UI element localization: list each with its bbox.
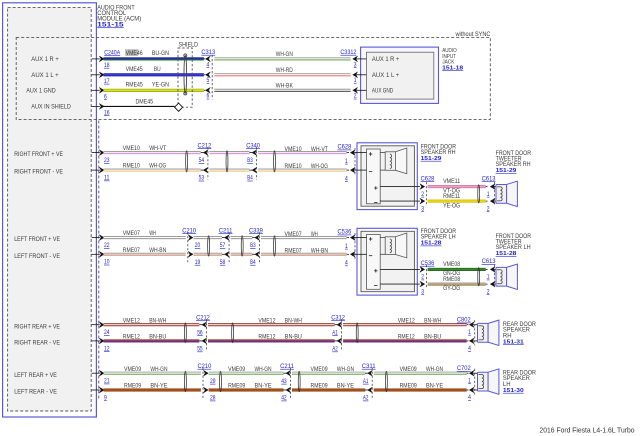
svg-text:WH-BN: WH-BN <box>311 248 328 255</box>
svg-text:RME12: RME12 <box>258 334 275 341</box>
svg-text:5: 5 <box>207 77 210 84</box>
svg-text:3: 3 <box>354 61 357 68</box>
svg-text:WH-GN: WH-GN <box>150 366 167 373</box>
svg-text:WH-BN: WH-BN <box>149 247 166 254</box>
connector C628 (speaker in) <box>338 144 367 183</box>
svg-text:1: 1 <box>345 243 348 250</box>
svg-text:BN-YE: BN-YE <box>337 383 354 390</box>
AUDIO FRONT CONTROL MODULE (ACM) label <box>97 6 141 29</box>
ACM pin 6 <box>92 87 108 100</box>
front door tweeter speaker RH label <box>496 151 532 174</box>
svg-text:B3: B3 <box>250 242 256 249</box>
svg-text:WH: WH <box>149 230 156 237</box>
svg-text:1: 1 <box>468 377 471 384</box>
svg-text:C536: C536 <box>338 229 352 236</box>
svg-text:C313: C313 <box>201 49 215 56</box>
svg-text:VME10: VME10 <box>123 145 140 152</box>
twisted pair loop <box>356 323 358 343</box>
svg-text:RIGHT REAR + VE: RIGHT REAR + VE <box>14 324 60 330</box>
svg-text:YE-OG: YE-OG <box>443 202 460 209</box>
svg-text:20: 20 <box>195 242 201 249</box>
svg-text:VME46: VME46 <box>126 50 143 57</box>
svg-text:C340: C340 <box>246 142 260 149</box>
svg-text:DME45: DME45 <box>136 98 154 105</box>
svg-text:RME12: RME12 <box>398 334 415 341</box>
svg-text:BN-WH: BN-WH <box>149 317 166 324</box>
twisted pair loop <box>298 371 300 391</box>
svg-text:RIGHT REAR - VE: RIGHT REAR - VE <box>14 341 60 347</box>
wire VME46 BU-GN <box>104 57 204 60</box>
shield symbol <box>184 55 187 93</box>
svg-text:17: 17 <box>104 78 110 85</box>
svg-text:BN-WH: BN-WH <box>285 317 302 324</box>
svg-text:1: 1 <box>354 77 357 84</box>
svg-text:53: 53 <box>199 175 205 182</box>
wire DME45 (drain) <box>104 105 175 107</box>
ACM inner dashed box (gray) <box>8 8 92 411</box>
svg-text:A1: A1 <box>363 378 369 385</box>
svg-text:C536: C536 <box>421 260 435 267</box>
svg-text:4: 4 <box>468 345 471 352</box>
connector C312 <box>331 314 345 352</box>
connector C212 <box>198 142 212 181</box>
front door speaker LH label <box>421 229 457 247</box>
svg-text:VME08: VME08 <box>443 261 460 268</box>
connector C536 (speaker in) <box>338 229 367 267</box>
svg-text:BN-YE: BN-YE <box>150 383 167 390</box>
wire VME10 segment 2 <box>209 151 249 154</box>
svg-text:1: 1 <box>487 274 490 281</box>
svg-text:9: 9 <box>104 394 107 401</box>
svg-text:LEFT REAR - VE: LEFT REAR - VE <box>14 390 57 396</box>
wire RME11 YE-OG <box>428 200 486 203</box>
svg-text:without SYNC: without SYNC <box>455 31 491 38</box>
svg-text:C339: C339 <box>249 227 263 234</box>
svg-text:RME10: RME10 <box>123 163 140 170</box>
ACM pin 22 <box>92 235 110 249</box>
svg-text:VME10: VME10 <box>285 146 302 153</box>
wire VME07 WH segment 1 <box>104 236 186 239</box>
wire RME07 segment 2 <box>194 253 223 256</box>
svg-text:AUX GND: AUX GND <box>372 88 394 94</box>
twisted pair loop <box>232 323 234 343</box>
ACM pin 18 <box>92 56 110 69</box>
svg-text:AUX IN SHIELD: AUX IN SHIELD <box>31 105 71 111</box>
svg-text:GY-OG: GY-OG <box>443 285 460 292</box>
svg-text:C210: C210 <box>198 363 212 370</box>
wire VME09 segment 2 <box>209 372 284 375</box>
svg-text:BN-YE: BN-YE <box>426 383 443 390</box>
wire VME09 segment 4 <box>374 372 467 375</box>
ACM pin 17 <box>92 72 110 85</box>
twisted pair loop <box>226 151 228 172</box>
svg-text:4: 4 <box>468 394 471 401</box>
svg-text:VME09: VME09 <box>400 366 417 373</box>
twisted pair loop <box>184 323 186 343</box>
svg-text:3: 3 <box>421 205 424 212</box>
svg-text:BU-GN: BU-GN <box>152 50 169 57</box>
svg-text:WH-OG: WH-OG <box>149 163 166 170</box>
wire VME07 segment 4 <box>261 236 347 239</box>
wire VME10 segment 3 <box>258 151 347 154</box>
ACM pin 10 <box>92 251 110 265</box>
twisted pair loop <box>274 236 276 256</box>
rear door speaker LH label <box>503 371 537 394</box>
connector C340 <box>246 142 260 181</box>
svg-text:RIGHT FRONT - VE: RIGHT FRONT - VE <box>14 170 63 176</box>
rear door speaker RH label <box>503 322 537 345</box>
svg-text:VME09: VME09 <box>228 366 245 373</box>
svg-text:C312: C312 <box>331 314 345 321</box>
svg-text:C240A: C240A <box>104 49 121 56</box>
svg-text:58: 58 <box>220 259 226 266</box>
svg-text:WH: WH <box>311 231 318 238</box>
svg-text:AUX 1 L +: AUX 1 L + <box>31 73 59 79</box>
svg-text:22: 22 <box>104 242 110 249</box>
wire RME07 WH-BN segment 1 <box>104 253 186 256</box>
svg-text:AUX 1 GND: AUX 1 GND <box>26 88 56 94</box>
wire VME09 WH-GN segment 1 <box>104 372 201 375</box>
svg-text:6: 6 <box>207 93 210 100</box>
ACM pin 9 <box>92 387 108 401</box>
front door tweeter speaker LH label <box>496 234 532 257</box>
svg-text:2016 Ford Fiesta L4-1.6L Turbo: 2016 Ford Fiesta L4-1.6L Turbo <box>540 426 635 435</box>
audio input jack label <box>442 48 464 71</box>
svg-text:A1: A1 <box>332 329 338 336</box>
shield drain diamond <box>175 103 183 111</box>
svg-text:4: 4 <box>207 61 210 68</box>
wire VME12 BN-WH segment 1 <box>104 323 200 326</box>
wire VME09 segment 3 <box>292 372 365 375</box>
svg-text:11: 11 <box>104 175 110 182</box>
svg-text:BN-BU: BN-BU <box>149 334 166 341</box>
svg-text:RME12: RME12 <box>123 334 140 341</box>
wire VME11 VT-OG <box>428 185 486 188</box>
rear door speaker RH icon <box>478 323 489 342</box>
svg-text:19: 19 <box>195 259 201 266</box>
svg-text:A2: A2 <box>363 395 369 402</box>
svg-text:151-29: 151-29 <box>496 168 518 174</box>
svg-text:C802: C802 <box>457 317 471 324</box>
svg-text:WH-GN: WH-GN <box>337 366 354 373</box>
svg-text:LEFT FRONT - VE: LEFT FRONT - VE <box>14 254 60 260</box>
svg-text:WH-GN: WH-GN <box>276 51 293 58</box>
connector C211 <box>280 363 294 402</box>
svg-text:RME09: RME09 <box>311 383 328 390</box>
svg-text:C212: C212 <box>198 142 212 149</box>
svg-text:55: 55 <box>197 346 203 353</box>
svg-text:AUX 1 R +: AUX 1 R + <box>31 57 59 63</box>
svg-text:12: 12 <box>104 345 110 352</box>
connector C3312 <box>340 49 366 100</box>
svg-text:VME12: VME12 <box>258 317 275 324</box>
svg-text:1: 1 <box>345 158 348 165</box>
ACM pin 11 <box>92 167 110 181</box>
twisted pair loop <box>385 371 387 391</box>
svg-text:WH-GN: WH-GN <box>426 366 443 373</box>
svg-text:VME12: VME12 <box>398 317 415 324</box>
connector C802 <box>457 317 478 353</box>
svg-text:RME07: RME07 <box>285 248 302 255</box>
twisted pair loop <box>186 151 188 172</box>
twisted pair loop <box>208 236 210 256</box>
svg-text:6: 6 <box>104 93 107 100</box>
svg-text:BN-BU: BN-BU <box>424 334 441 341</box>
svg-text:BU: BU <box>154 66 161 73</box>
svg-text:A2: A2 <box>332 346 338 353</box>
svg-text:C628: C628 <box>338 144 352 151</box>
wire RME45 YE-GN <box>104 89 204 92</box>
connector C311 <box>362 363 376 402</box>
front door speaker LH box <box>357 228 417 295</box>
connector C313 <box>201 49 215 100</box>
twisted pair loop <box>241 236 243 256</box>
wire VME08 GN-OG <box>428 268 486 271</box>
svg-text:2: 2 <box>354 93 357 100</box>
svg-text:151-29: 151-29 <box>421 156 443 162</box>
ACM pin 21 <box>92 370 110 384</box>
wire RME12 BN-BU segment 1 <box>104 339 200 342</box>
wire RME07 segment 4 <box>261 253 347 256</box>
svg-text:BN-YE: BN-YE <box>255 383 272 390</box>
svg-text:4: 4 <box>345 260 348 267</box>
svg-text:WH-RD: WH-RD <box>276 67 293 74</box>
svg-text:BN-WH: BN-WH <box>424 317 441 324</box>
svg-text:28: 28 <box>210 395 216 402</box>
svg-text:2: 2 <box>487 288 490 295</box>
svg-text:1: 1 <box>487 191 490 198</box>
svg-text:RME07: RME07 <box>123 247 140 254</box>
wire VME07 segment 3 <box>231 236 253 239</box>
svg-text:29: 29 <box>210 378 216 385</box>
svg-text:VME11: VME11 <box>443 178 460 185</box>
svg-text:C628: C628 <box>421 175 435 182</box>
svg-text:SHIELD: SHIELD <box>179 41 199 48</box>
svg-text:VME07: VME07 <box>285 231 302 238</box>
connector C339 <box>249 227 263 266</box>
svg-text:24: 24 <box>104 329 110 336</box>
wire RME08 GY-OG <box>428 283 486 286</box>
svg-text:BN-BU: BN-BU <box>285 334 302 341</box>
wire VME10 WH-VT segment 1 <box>104 151 201 154</box>
svg-text:LEFT REAR + VE: LEFT REAR + VE <box>14 373 57 379</box>
svg-text:RME11: RME11 <box>443 193 460 200</box>
connector C211 <box>219 227 233 266</box>
ACM pin 16 <box>92 104 110 117</box>
svg-text:RME10: RME10 <box>285 163 302 170</box>
svg-text:151-31: 151-31 <box>503 339 525 345</box>
svg-text:C210: C210 <box>182 227 196 234</box>
svg-text:C702: C702 <box>457 365 471 372</box>
wire RME09 segment 2 <box>209 388 284 391</box>
front door speaker RH box <box>357 143 417 210</box>
svg-text:LEFT FRONT + VE: LEFT FRONT + VE <box>14 237 60 243</box>
svg-text:151-28: 151-28 <box>496 251 518 257</box>
dashed boundary right of ACM <box>98 121 100 401</box>
wire WH-RD <box>214 73 350 76</box>
svg-text:RME09: RME09 <box>124 383 141 390</box>
svg-text:10: 10 <box>104 259 110 266</box>
svg-text:151-28: 151-28 <box>421 241 443 247</box>
svg-text:RME08: RME08 <box>443 276 460 283</box>
connector C212 <box>196 314 210 352</box>
twisted pair loop <box>478 268 480 286</box>
ACM outer box (blue) <box>3 3 97 417</box>
shield box <box>178 48 192 107</box>
connector C702 <box>457 365 478 401</box>
svg-text:1: 1 <box>468 329 471 336</box>
twisted pair loop <box>274 151 276 172</box>
wire RME09 segment 4 <box>374 388 467 391</box>
svg-text:VME09: VME09 <box>124 366 141 373</box>
connector C613 (tweeter) <box>482 258 496 295</box>
wire RME12 segment 3 <box>343 339 467 342</box>
svg-text:RIGHT FRONT + VE: RIGHT FRONT + VE <box>14 152 63 158</box>
connector C210 <box>182 227 200 266</box>
svg-text:YE-GN: YE-GN <box>152 81 169 88</box>
svg-text:151-15: 151-15 <box>97 21 124 28</box>
wire RME10 segment 3 <box>258 169 347 172</box>
svg-text:VME07: VME07 <box>123 230 140 237</box>
wire RME10 segment 2 <box>209 169 249 172</box>
wire RME09 segment 3 <box>292 388 365 391</box>
ACM pin 23 <box>92 150 110 164</box>
ACM pin 12 <box>92 338 110 352</box>
svg-text:54: 54 <box>199 157 205 164</box>
svg-text:16: 16 <box>104 109 110 116</box>
svg-text:18: 18 <box>104 62 110 69</box>
svg-text:43: 43 <box>281 378 287 385</box>
svg-text:WH-BK: WH-BK <box>276 83 294 90</box>
svg-text:B4: B4 <box>250 259 256 266</box>
svg-text:VME09: VME09 <box>311 366 328 373</box>
svg-text:23: 23 <box>104 157 110 164</box>
svg-text:AUX 1 L +: AUX 1 L + <box>372 73 400 79</box>
svg-text:RME45: RME45 <box>126 81 143 88</box>
wire VME12 segment 2 <box>208 323 335 326</box>
svg-text:B3: B3 <box>247 157 253 164</box>
svg-text:WH-OG: WH-OG <box>311 163 328 170</box>
svg-text:56: 56 <box>197 329 203 336</box>
wire RME09 BN-YE segment 1 <box>104 388 201 391</box>
wire VME45 BU <box>104 73 204 76</box>
svg-text:C3312: C3312 <box>340 49 356 56</box>
twisted pair loop <box>220 371 222 391</box>
ACM pin 24 <box>92 322 110 336</box>
svg-text:AUX 1 R +: AUX 1 R + <box>372 57 400 63</box>
svg-text:4: 4 <box>345 175 348 182</box>
connector C613 (tweeter) <box>482 175 496 212</box>
svg-text:2: 2 <box>421 274 424 281</box>
svg-text:C613: C613 <box>482 175 496 182</box>
wire WH-BK <box>214 89 350 92</box>
without SYNC dashed region <box>16 37 490 119</box>
svg-text:21: 21 <box>104 378 110 385</box>
svg-text:VME45: VME45 <box>126 66 143 73</box>
twisted pair loop <box>184 371 186 391</box>
wire RME12 segment 2 <box>208 339 335 342</box>
svg-text:B4: B4 <box>247 175 253 182</box>
svg-text:C211: C211 <box>219 227 233 234</box>
wire VME12 segment 3 <box>343 323 467 326</box>
svg-text:151-30: 151-30 <box>503 388 525 394</box>
twisted pair loop <box>478 185 480 203</box>
svg-text:57: 57 <box>220 242 226 249</box>
svg-text:2: 2 <box>487 205 490 212</box>
svg-text:RME09: RME09 <box>400 383 417 390</box>
svg-text:C211: C211 <box>280 363 294 370</box>
connector C210 <box>198 363 216 402</box>
svg-text:42: 42 <box>281 395 287 402</box>
svg-text:C212: C212 <box>196 314 210 321</box>
front door speaker RH label <box>421 144 457 162</box>
rear door speaker LH icon <box>478 372 489 391</box>
svg-text:C311: C311 <box>362 363 376 370</box>
svg-text:VME12: VME12 <box>123 317 140 324</box>
wire RME07 segment 3 <box>231 253 253 256</box>
svg-text:WH-VT: WH-VT <box>149 145 166 152</box>
svg-text:3: 3 <box>421 288 424 295</box>
wire VME07 segment 2 <box>194 236 223 239</box>
front door tweeter speaker RH icon <box>496 184 507 203</box>
svg-text:151-18: 151-18 <box>442 65 464 71</box>
wire RME10 WH-OG segment 1 <box>104 169 201 172</box>
audio input jack AUX <box>361 47 439 103</box>
svg-text:WH-GN: WH-GN <box>255 366 272 373</box>
svg-text:RME09: RME09 <box>228 383 245 390</box>
wire WH-GN <box>214 57 350 60</box>
svg-text:C613: C613 <box>482 258 496 265</box>
svg-text:WH-VT: WH-VT <box>311 146 328 153</box>
svg-text:2: 2 <box>421 191 424 198</box>
front door tweeter speaker LH icon <box>496 267 507 286</box>
